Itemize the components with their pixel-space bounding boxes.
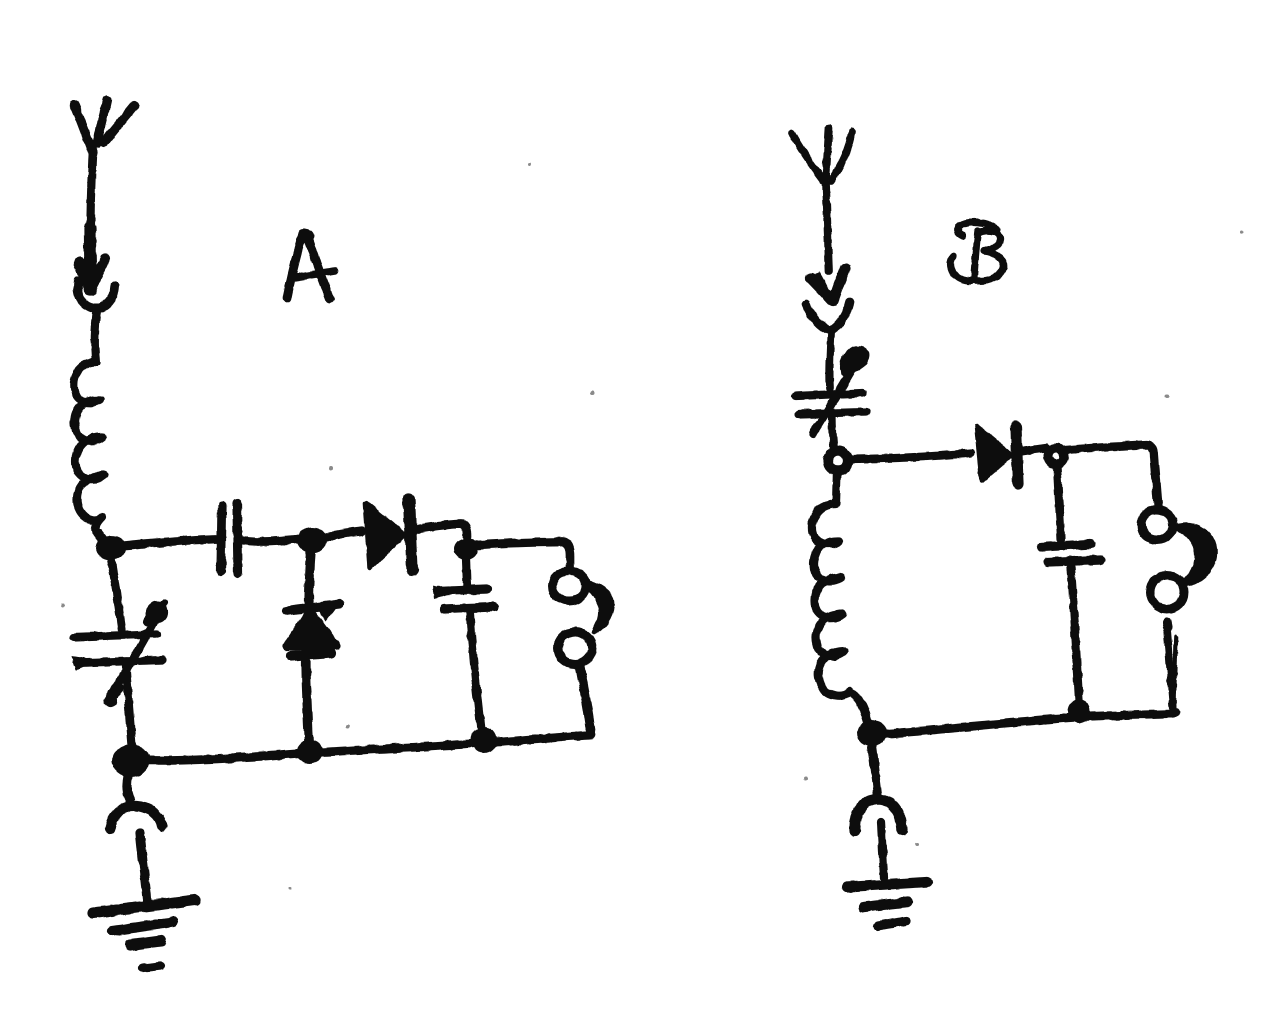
inductor L2 (coil, circuit B) — [812, 470, 870, 730]
ground (circuit A) — [93, 776, 195, 968]
wire D1 to node A3 — [418, 524, 467, 537]
earpiece P1 (headphone, circuit A) — [552, 571, 612, 733]
node A5 (ground junction, circuit A) — [112, 745, 150, 777]
wire node B1 to diode D2 — [849, 453, 971, 459]
node B4 (coil / ground junction) — [857, 720, 887, 746]
earpiece P2 (headphone, circuit B) — [1141, 510, 1215, 708]
bottom rail wire B — [884, 712, 1176, 734]
node A1 (coil / tuning cap / coupling cap junction) — [96, 536, 126, 560]
node B1 (antenna / coil / diode junction) — [828, 451, 848, 471]
bottom rail wire A — [133, 735, 591, 760]
node B2 (detector output junction) — [1048, 448, 1064, 464]
variable capacitor VC1 (tuning cap, circuit A) — [72, 553, 164, 746]
label A — [287, 229, 335, 299]
node A6 (diode D3 / bottom rail junction) — [297, 740, 323, 764]
diode D3 (vertical, cathode up, circuit A) — [286, 602, 341, 748]
ground (circuit B) — [847, 746, 927, 926]
inductor L1 (coil, circuit A) — [74, 362, 108, 546]
wire D2 to node B2 — [1019, 448, 1046, 452]
node A4 (bypass cap / bottom rail junction) — [471, 727, 497, 753]
label B — [951, 222, 1004, 281]
diode D2 (horizontal, circuit B) — [977, 427, 1018, 484]
node A3 (detector output junction) — [454, 538, 478, 560]
wire node A2 down to diode D3 — [309, 552, 311, 602]
wire node A3 to earpiece — [477, 542, 570, 568]
wire node B2 to earpiece — [1065, 445, 1158, 506]
capacitor C2 (bypass cap, circuit A) — [433, 559, 494, 730]
diode D1 (horizontal, circuit A) — [366, 499, 412, 570]
scan specks (noise) — [61, 163, 1244, 890]
node B3 (bypass cap / bottom rail junction) — [1068, 699, 1090, 723]
node A2 (diode junction) — [297, 527, 327, 553]
wire node A1 to C1 — [120, 539, 216, 546]
wire node A2 to diode D1 — [326, 531, 362, 537]
antenna B — [792, 128, 852, 388]
capacitor C1 (series coupling cap, circuit A) — [221, 503, 238, 573]
wire C1 to node A2 — [241, 539, 298, 542]
capacitor C3 (bypass cap, circuit B) — [1041, 465, 1101, 700]
variable capacitor VC2 (tuning cap, circuit B) — [796, 348, 868, 450]
antenna A — [74, 100, 134, 362]
